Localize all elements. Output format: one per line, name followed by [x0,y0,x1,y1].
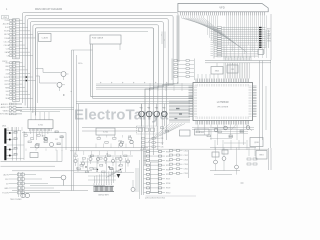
svg-text:Q3: Q3 [106,154,108,156]
svg-text:R88: R88 [128,136,131,138]
svg-text:SCL: SCL [6,95,9,97]
svg-text:C705: C705 [184,169,188,171]
svg-text:REM: REM [5,87,9,89]
svg-text:X801: X801 [215,70,219,72]
svg-text:R32: R32 [161,142,164,144]
svg-text:R708: R708 [166,183,170,185]
svg-text:KEY1: KEY1 [5,80,9,82]
svg-text:K-I/O: K-I/O [5,27,10,29]
svg-text:C701: C701 [184,150,188,152]
svg-text:C704: C704 [184,164,188,166]
svg-text:C703: C703 [184,159,188,161]
svg-text:VFD: VFD [219,5,225,9]
svg-text:AC IN: AC IN [3,173,9,176]
svg-text:C35: C35 [161,147,164,149]
svg-text:R15: R15 [42,136,45,138]
svg-text:IC701: IC701 [38,124,43,126]
svg-text:R710: R710 [166,192,170,194]
svg-text:GND: GND [4,188,9,190]
svg-text:Q1: Q1 [74,153,76,155]
svg-text:REG: REG [259,155,264,157]
svg-text:CN702 KEY: CN702 KEY [98,194,109,196]
svg-text:C22: C22 [55,139,58,141]
svg-text:KEY2: KEY2 [5,84,9,86]
svg-text:R9: R9 [118,166,120,168]
svg-text:D801: D801 [2,126,6,128]
svg-text:Q2: Q2 [90,156,92,158]
svg-text:Q7: Q7 [76,168,78,170]
svg-text:C706: C706 [184,173,188,175]
svg-text:R31: R31 [161,138,164,140]
svg-text:Q810: Q810 [254,142,259,144]
svg-text:C702: C702 [184,155,188,157]
svg-text:AUDIO R: AUDIO R [1,106,10,109]
svg-text:RST: RST [6,70,9,72]
svg-text:Q705: Q705 [118,141,122,143]
svg-text:IC702: IC702 [103,132,108,134]
svg-text:D3: D3 [96,171,98,173]
svg-text:CD-CK: CD-CK [4,41,10,43]
svg-text:IC802: IC802 [199,132,204,134]
svg-text:T801 POWER: T801 POWER [10,199,22,201]
svg-text:R707: R707 [166,179,170,181]
svg-text:5V B+: 5V B+ [78,63,83,65]
svg-text:x: x [161,35,162,37]
svg-text:AC-DET: AC-DET [3,23,9,26]
svg-text:R709: R709 [166,188,170,190]
svg-text:SYS GND: SYS GND [0,114,9,116]
svg-text:LC75854W: LC75854W [217,101,230,104]
svg-text:ST-BY: ST-BY [4,31,10,33]
svg-text:ElectroTanya: ElectroTanya [74,107,169,124]
svg-text:FLAT CABLE: FLAT CABLE [92,37,104,40]
svg-text:CD-DA: CD-DA [4,44,10,47]
svg-text:Q701 Q702 D701 D702: Q701 Q702 D701 D702 [145,198,165,200]
svg-text:x: x [164,40,165,42]
svg-text:AUDIO L: AUDIO L [1,103,9,106]
svg-text:MAIN CIRCUIT DIAGRAM: MAIN CIRCUIT DIAGRAM [35,8,62,11]
svg-text:VFD DRIVER: VFD DRIVER [217,107,229,109]
svg-text:C-BUS: C-BUS [42,38,49,40]
svg-text:X-OUT: X-OUT [4,77,9,79]
svg-text:VIDEO: VIDEO [3,110,9,112]
svg-text:P-CON: P-CON [2,192,9,194]
